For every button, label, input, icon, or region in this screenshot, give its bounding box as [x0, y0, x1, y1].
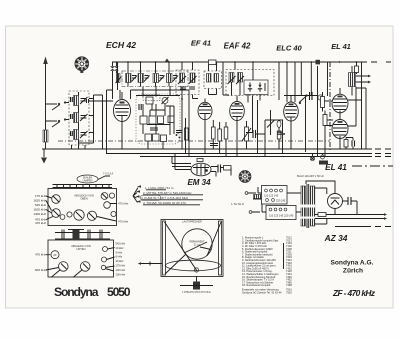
T3 coil a [228, 73, 236, 85]
T3 coil b [236, 73, 244, 85]
svg-text:1620 kHz: 1620 kHz [33, 199, 46, 203]
dial glass bar [53, 185, 113, 188]
screen feed line [107, 90, 113, 154]
V2 component stems [213, 120, 226, 157]
grid stem [278, 62, 280, 149]
screen stopper dark blob [319, 161, 328, 165]
wire [328, 62, 357, 96]
wave band table row 1 [137, 185, 174, 190]
svg-text:5 kHz: 5 kHz [116, 250, 123, 254]
svg-text:ELC 40: ELC 40 [276, 44, 302, 53]
osc cap right [176, 131, 182, 133]
pickup coil [254, 195, 263, 199]
dial drum socket 2 [239, 170, 251, 182]
diode 2 [258, 83, 265, 92]
bus B3 [140, 156, 391, 158]
svg-text:EL 41: EL 41 [331, 42, 351, 51]
osc resistor row2 [145, 134, 152, 141]
T1 caps [180, 87, 195, 89]
bead on rail [316, 60, 321, 65]
osc resistor right [185, 128, 189, 140]
bottom trimmer circles [51, 247, 108, 272]
svg-text:220 245: 220 245 [276, 199, 286, 203]
T1 coil b [189, 73, 197, 84]
band row3 outline [141, 195, 161, 200]
T2 stems [209, 62, 217, 95]
svg-text:542 kHz: 542 kHz [116, 242, 126, 246]
input coil 2 [74, 113, 88, 123]
wave band table row 4 [137, 200, 187, 205]
rail junction dots [127, 61, 129, 63]
speaker side post left [163, 221, 166, 275]
svg-text:EL 41: EL 41 [325, 163, 347, 172]
junction dots cluster [176, 134, 178, 136]
tube V1 ECH42 [114, 100, 131, 122]
loudspeaker frame [161, 220, 223, 277]
svg-text:18. Rueckwand komplett: 18. Rueckwand komplett [242, 283, 271, 287]
magnet [180, 277, 213, 290]
rectifier tube V7 AZ34 [328, 191, 343, 215]
tone caps [310, 92, 313, 100]
V2 bias resistor [218, 129, 222, 141]
svg-text:ECH 42: ECH 42 [106, 40, 136, 50]
svg-text:EM 34: EM 34 [187, 178, 211, 187]
dial lamp symbols [310, 154, 324, 161]
osc input coil small [116, 74, 122, 84]
transformer top lead to rectifier [306, 181, 335, 191]
svg-text:175 kHz: 175 kHz [35, 194, 47, 198]
selector wiring [248, 187, 301, 212]
input section wiring [66, 92, 113, 149]
smoothing caps [348, 197, 351, 205]
svg-text:470 kHz: 470 kHz [118, 220, 129, 224]
T1 stems [182, 62, 198, 99]
antenna coil [43, 130, 48, 142]
heater leads with arrows [315, 213, 387, 220]
diode 1 [248, 83, 252, 92]
svg-text:L·TA·NL·K: L·TA·NL·K [231, 202, 244, 206]
right labels bottom [116, 242, 126, 277]
svg-text:AZ 34: AZ 34 [324, 233, 348, 243]
svg-text:BLAU 110-245 V 50 Hz: BLAU 110-245 V 50 Hz [297, 174, 324, 178]
svg-text:175 kHz: 175 kHz [116, 264, 126, 268]
svg-text:110 125 145: 110 125 145 [264, 194, 279, 198]
V4 stem [287, 62, 295, 149]
wave band table row 3 [136, 195, 189, 200]
svg-text:470 kHz: 470 kHz [35, 221, 47, 225]
dial drum socket view [75, 57, 89, 73]
left labels bottom [35, 253, 47, 272]
svg-text:LAUTSPRECHER: LAUTSPRECHER [182, 221, 202, 224]
alignment chassis bottom view [48, 240, 114, 277]
input coil 1 [74, 96, 88, 106]
svg-text:19 kHz: 19 kHz [116, 246, 125, 250]
svg-text:470 kHz: 470 kHz [35, 253, 47, 257]
osc extra wiring [118, 62, 181, 134]
tone circle [318, 95, 323, 100]
tube V3 EAF42 [230, 102, 245, 122]
svg-text:5050: 5050 [107, 285, 131, 299]
osc resistor row1 [140, 116, 147, 124]
EM34 right resistor [224, 166, 232, 171]
V2 stem [204, 99, 206, 154]
svg-text:ZF: ZF [53, 253, 57, 257]
vertical to bus [178, 87, 190, 157]
svg-text:ZF - 470 kHz: ZF - 470 kHz [332, 288, 376, 298]
IF chassis bottom view bar [55, 230, 110, 240]
osc coil 2 [138, 74, 150, 83]
top supply rail [112, 61, 391, 63]
grid resistor EL41 a [321, 97, 325, 108]
right leader lines [105, 248, 115, 272]
svg-text:Sondyna AG Zuerich Tel. 32 63: Sondyna AG Zuerich Tel. 32 63 44 [242, 290, 282, 294]
parts list brace [283, 243, 285, 269]
T2 coil a [207, 74, 212, 83]
phase splitter dash-dot [329, 62, 331, 150]
HT output dashes [335, 226, 391, 228]
svg-text:7 V 0,3 A: 7 V 0,3 A [103, 173, 113, 176]
svg-text:470 kHz: 470 kHz [118, 202, 129, 206]
grid resistor V4 [277, 131, 281, 139]
pot stem [246, 121, 248, 149]
padder cap on grid line [110, 62, 115, 99]
leader dash to EL41 [352, 165, 393, 167]
grid stopper upper [355, 66, 359, 73]
svg-text:7502: 7502 [286, 290, 292, 294]
V2 screen resistor [224, 127, 228, 139]
svg-text:1620 kHz: 1620 kHz [33, 208, 46, 212]
svg-text:1400 kHz: 1400 kHz [33, 212, 46, 216]
tube V8 EM34 [191, 163, 211, 176]
ground symbol [41, 149, 47, 164]
osc coil 1 [126, 74, 138, 83]
svg-text:600 kHz: 600 kHz [35, 268, 47, 272]
svg-text:Sondyna A.G.: Sondyna A.G. [331, 260, 374, 267]
frame struts [165, 222, 222, 274]
junction mark on rail [165, 59, 170, 63]
svg-text:LAMPEN: LAMPEN [83, 179, 93, 182]
svg-text:EF 41: EF 41 [191, 39, 211, 48]
detector transformer T3 dashed box [226, 70, 274, 96]
osc cap A [146, 97, 153, 104]
osc cap bars [150, 128, 158, 130]
alignment chassis top view [48, 189, 117, 226]
cone pointer arrows [184, 242, 211, 253]
output leads with arrows [356, 75, 372, 84]
bottom trimmer arrows [52, 264, 89, 278]
chassis dash-dot line [58, 140, 330, 142]
speaker side post right [219, 221, 222, 275]
svg-text:30 kHz: 30 kHz [116, 259, 125, 263]
tone switch [299, 94, 308, 104]
svg-text:Sondyna: Sondyna [54, 285, 99, 299]
EM34 leads [172, 154, 191, 170]
bus B2 [106, 153, 391, 155]
AVC line [94, 95, 103, 149]
voltage selector box 2 [266, 206, 296, 220]
oscillator coil box dash-dot [122, 71, 188, 87]
mains plug contacts [245, 192, 248, 195]
junction dot [283, 133, 285, 135]
trimmer cross marks [53, 194, 107, 220]
trimmer circle row [52, 193, 116, 221]
V2 cathode resistor [212, 127, 216, 139]
fuse [318, 213, 326, 217]
leader [46, 255, 59, 270]
left dial labels [33, 194, 46, 225]
left label leaders [46, 196, 53, 220]
svg-text:1 PHILIPS 9710 M 5 Ohm: 1 PHILIPS 9710 M 5 Ohm [182, 291, 211, 294]
power transformer core [307, 184, 309, 228]
IF transformer T2 dashed box [204, 71, 222, 89]
voltage selector box 1 [262, 186, 288, 205]
wave band table row 2 [136, 190, 192, 195]
osc wiring [131, 87, 181, 150]
svg-text:140 kHz: 140 kHz [116, 268, 126, 272]
volume pot [242, 127, 251, 141]
AF pot arrow [267, 120, 275, 128]
antenna [43, 57, 48, 150]
wire [284, 62, 318, 157]
tube V6 EL41 [332, 120, 348, 139]
input coil box dashed [69, 91, 89, 145]
coil stems from rail [128, 62, 169, 87]
speaker lead line [138, 262, 162, 266]
HT leads [315, 188, 327, 224]
ground bus B1 [42, 148, 391, 150]
svg-text:6 kHz: 6 kHz [116, 255, 123, 259]
band switch contacts upper [46, 101, 67, 110]
svg-text:110 125 145 220 245: 110 125 145 220 245 [269, 214, 294, 218]
T1 coil a [178, 73, 186, 84]
EM34 top contact [197, 159, 203, 162]
band row underlines [141, 190, 203, 205]
power transformer primary [301, 186, 306, 226]
wire [282, 120, 284, 154]
wire [253, 187, 270, 204]
grid resistor EL41 b [323, 115, 327, 126]
power transformer secondary [310, 186, 315, 226]
parts list [242, 236, 292, 295]
tube stems [339, 88, 341, 149]
svg-text:Zürich: Zürich [343, 268, 363, 275]
osc trimmer [162, 97, 169, 104]
svg-text:EAF 42: EAF 42 [224, 42, 251, 51]
svg-text:520 kHz: 520 kHz [35, 203, 47, 207]
stem from rail [114, 62, 119, 73]
V3 stem [236, 96, 238, 157]
osc coil 4 [167, 74, 179, 83]
T2 coil b [214, 74, 219, 83]
right label leaders [97, 204, 117, 222]
osc small rect [168, 116, 174, 123]
osc coil 3 [153, 74, 165, 83]
mounting ring ellipse [166, 260, 221, 271]
osc cap bars B [139, 104, 141, 110]
T3 diode box [244, 80, 268, 95]
winding section gaps [301, 205, 316, 208]
AF coupling caps [253, 130, 256, 138]
oscillator network dotted box [136, 94, 180, 144]
rail resistor [209, 60, 217, 65]
svg-text:UNTEN: UNTEN [77, 247, 86, 251]
svg-text:100 kHz: 100 kHz [116, 272, 126, 276]
input coil 3 [74, 130, 88, 140]
coupling cap bars [277, 132, 283, 134]
tube V2 EF41 [198, 102, 212, 119]
dial lamp oval [77, 173, 113, 184]
padding coil sub-box [143, 95, 160, 101]
EM34 right cap [218, 165, 221, 173]
cathode RC network [344, 138, 355, 150]
speaker cone circle [182, 229, 212, 259]
small ellipse component [277, 121, 281, 128]
V2 cathode caps [210, 144, 218, 146]
IF transformer T1 dashed box [176, 70, 199, 95]
T3 stems [223, 62, 260, 133]
plate wires [348, 62, 366, 149]
driver transformer [349, 62, 356, 87]
input box caps [71, 97, 73, 136]
band switch contacts lower [46, 118, 67, 127]
svg-text:OBEN: OBEN [80, 197, 87, 201]
svg-text:7468: 7468 [286, 283, 292, 287]
detector wiring [258, 100, 284, 157]
wire [323, 92, 334, 157]
tube V4 ELC40 [284, 102, 299, 122]
osc link wires [143, 96, 170, 125]
EM34 wiring [211, 167, 231, 177]
input trimmer caps [87, 99, 89, 103]
spider small circle [194, 268, 198, 272]
tube V5 EL41 [332, 94, 348, 113]
band row brace [133, 188, 138, 203]
V1 cathode stem [121, 92, 123, 149]
